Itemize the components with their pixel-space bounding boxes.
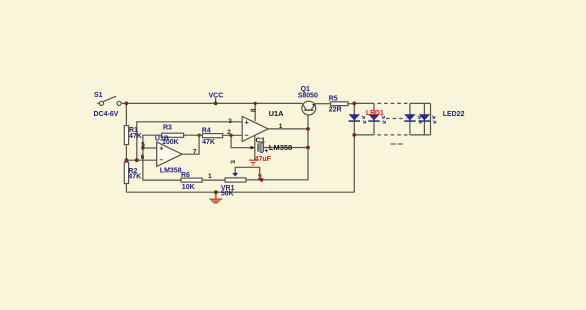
junction dot R3-R4-pin7 (197, 134, 200, 137)
svg-text:1: 1 (279, 123, 283, 130)
wire: top VCC rail from S1 to Q1 (121, 102, 302, 104)
wire: VR1 right lead (246, 179, 262, 181)
capacitor C1 right plate (260, 143, 264, 153)
wire: R3 right to R4 left with pin7 riser (184, 134, 203, 136)
svg-text:47K: 47K (128, 174, 141, 181)
svg-text:22R: 22R (329, 106, 342, 113)
Q1 emitter arrowhead (312, 104, 315, 107)
LED3 light arrows (418, 116, 422, 123)
dashed continuation middle (386, 118, 407, 120)
wire: VR1 wiper up over to pin2 node (235, 167, 260, 180)
svg-text:LM358: LM358 (269, 143, 292, 152)
transistor Q1 emitter diagonal (311, 104, 315, 110)
switch S1 right contact (117, 101, 121, 105)
wire: U1A output pin1 to Q1 base line (268, 128, 308, 130)
svg-text:C1: C1 (256, 135, 266, 144)
junction dot divider mid (125, 158, 129, 162)
wire: LED pair2 top bus (410, 102, 431, 104)
svg-text:LED1: LED1 (366, 110, 384, 117)
wire: LED pair2 right side (430, 103, 432, 134)
ground under U1A pin4 (249, 160, 257, 165)
svg-text:50K: 50K (221, 191, 234, 198)
capacitor C1 left plate (257, 143, 258, 151)
junction dot LED bottom bus (352, 133, 356, 137)
U1B plus sign (160, 121, 249, 160)
wire: LED3 branch vertical (409, 103, 411, 134)
junction dot C1-base line (306, 146, 310, 150)
wire: LED bottom to ground rail (353, 135, 355, 192)
svg-text:7: 7 (193, 149, 197, 156)
svg-text:VCC: VCC (209, 92, 224, 99)
svg-text:R3: R3 (163, 125, 172, 132)
resistor R4 body (203, 134, 223, 138)
transistor Q1 body circle (302, 101, 316, 115)
junction dot pin5 node (141, 146, 144, 149)
capacitor C1 input arrowhead (251, 146, 255, 150)
svg-text:47uF: 47uF (255, 156, 272, 163)
transistor Q1 collector diagonal (303, 104, 307, 110)
switch S1 left contact (99, 101, 103, 105)
wire: rail to R1 top (125, 103, 127, 125)
wire: C1 right plate to base line (263, 147, 308, 149)
svg-text:6: 6 (141, 154, 145, 161)
dashed continuation top (378, 102, 409, 104)
resistor R1 body (124, 126, 128, 145)
junction dot pin3 branch (135, 158, 139, 162)
svg-text:LM358: LM358 (160, 167, 182, 174)
svg-text:2: 2 (258, 173, 263, 182)
resistor R5 body (331, 102, 348, 106)
op-amp U1B triangle (157, 142, 182, 166)
wire: R5 to LED top node (348, 103, 354, 105)
wire: bottom ground rail (126, 191, 354, 193)
junction dot VR1 pin2 (260, 178, 264, 182)
svg-text:47K: 47K (129, 133, 142, 140)
junction dot R4-pin2 (229, 134, 232, 137)
wire: U1A pin8 power stub (254, 103, 256, 121)
LED2 (368, 114, 379, 122)
wire: R1 bottom to divider node (125, 145, 127, 163)
wire: U1A pin4 ground stub (254, 136, 256, 160)
svg-text:3: 3 (228, 118, 232, 125)
continuation dash mark (391, 143, 403, 145)
switch S1 lever (103, 96, 116, 101)
U1A plus sign (245, 122, 249, 124)
wire: pin3 riser from divider node (137, 122, 242, 160)
junction dot output-base (306, 127, 310, 131)
wire: R4 right to U1A pin2 (223, 134, 243, 136)
svg-text:3: 3 (230, 160, 237, 164)
wire: LED pair1 top bus (354, 102, 374, 104)
wire: Q1 emitter to R5 (315, 103, 331, 105)
capacitor C1 plus mark (265, 149, 268, 152)
svg-text:LED22: LED22 (443, 111, 465, 118)
wire: divider mid node to U1B pin6 (126, 159, 156, 161)
svg-text:47K: 47K (202, 139, 215, 146)
wire: R2 bottom to ground rail corner (125, 184, 127, 193)
LED4 light arrows (432, 116, 436, 123)
junction dot rail-R1 (125, 102, 129, 106)
LED1 light arrows (362, 116, 366, 123)
wire: left stub of S1 (97, 102, 99, 104)
svg-text:U1A: U1A (269, 109, 285, 118)
potentiometer VR1 body (225, 178, 246, 182)
LED4 (419, 114, 430, 122)
wire: U1B pin7 output to feedback riser (182, 135, 199, 154)
ground stub on bottom rail (215, 192, 217, 198)
LED2 light arrows (382, 116, 386, 123)
dashed continuation bottom (378, 134, 409, 136)
resistor R6 body (181, 178, 202, 182)
wire: LED4 branch vertical (423, 103, 425, 134)
transistor Q1 base bar (304, 109, 313, 111)
wire: R3 left lead down to pin5 node and on to R6 (143, 135, 181, 180)
wire: pin2 node down and right to C1 (231, 135, 251, 147)
svg-text:S1: S1 (94, 92, 103, 99)
wire: U1B pin5 lead (143, 147, 157, 149)
wire: LED2 branch vertical (373, 103, 375, 134)
svg-text:R6: R6 (181, 172, 190, 179)
op-amp U1A triangle (242, 116, 268, 141)
resistor R3 body (162, 133, 184, 137)
wire: VCC stub (215, 98, 217, 104)
wire: Q1 base vertical down to VR1 pin2 line (262, 115, 309, 180)
VR1 wiper arrow (232, 173, 238, 177)
LED1 (349, 114, 360, 122)
svg-text:5: 5 (141, 142, 145, 149)
wire: LED pair2 bottom bus (410, 134, 431, 136)
svg-text:S8050: S8050 (298, 93, 318, 100)
svg-text:U1B: U1B (155, 135, 169, 142)
junction dot ground rail (214, 190, 218, 194)
svg-text:10K: 10K (182, 184, 195, 191)
svg-text:1: 1 (208, 173, 212, 180)
U1B minus sign (160, 159, 164, 161)
U1A minus sign (245, 134, 249, 136)
wire: LED pair1 bottom bus (354, 134, 374, 136)
junction dot pin8 (254, 102, 257, 105)
wire: R6 right to VR1 (202, 179, 225, 181)
svg-text:8: 8 (250, 108, 257, 112)
ground under bottom rail (209, 199, 222, 203)
LED3 (404, 114, 415, 122)
svg-text:R5: R5 (329, 96, 338, 103)
svg-text:DC4-6V: DC4-6V (94, 111, 119, 118)
wire: LED1 branch vertical (353, 103, 355, 134)
svg-text:R4: R4 (202, 128, 211, 135)
resistor R2 body (124, 162, 128, 183)
svg-text:2: 2 (227, 129, 231, 136)
junction dot R5-LED top (352, 102, 356, 106)
junction dot VCC stub (214, 102, 218, 106)
